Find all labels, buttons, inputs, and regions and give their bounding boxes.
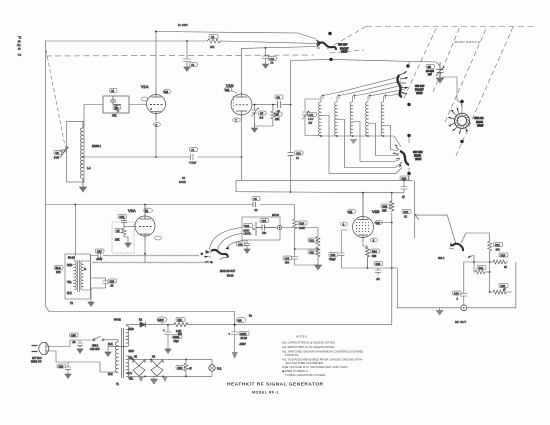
capacitor C20 xyxy=(244,240,250,249)
wire V1B plate line y=48.4 xyxy=(242,47,319,49)
transformer T2 core xyxy=(78,260,80,292)
node dot C10 tap xyxy=(265,47,267,49)
node dots grid line xyxy=(254,104,256,106)
svg-text:BLK: BLK xyxy=(108,343,113,346)
svg-text:C30: C30 xyxy=(309,114,314,117)
grid network dotted box xyxy=(112,222,134,253)
ground xyxy=(184,67,191,72)
ground C20 xyxy=(244,249,251,254)
svg-text:135: 135 xyxy=(225,89,230,92)
wire bottom bus y=268 xyxy=(342,267,398,269)
wire linkage diagonal to top dash xyxy=(327,27,366,50)
pin label bottom xyxy=(233,118,241,122)
svg-text:C28A: C28A xyxy=(173,336,180,339)
resistor R3 xyxy=(207,39,221,43)
border left edge B+ bus xyxy=(46,41,50,312)
svg-text:Page 2: Page 2 xyxy=(17,36,22,57)
switch SW A blob xyxy=(452,244,463,251)
trimmer capacitor C9 xyxy=(436,62,444,77)
wire grid to box xyxy=(124,226,137,228)
ground xyxy=(79,187,87,193)
tube V1B grid xyxy=(236,104,249,106)
svg-text:R14: R14 xyxy=(372,250,377,253)
node dot C5 tap xyxy=(186,40,188,42)
wire linkage dashed top horizontal xyxy=(366,26,534,28)
resistor R14 xyxy=(366,247,370,267)
svg-text:RF OUT: RF OUT xyxy=(455,320,466,324)
wire C9 to SW2AR xyxy=(440,77,457,100)
svg-text:C22: C22 xyxy=(285,257,290,260)
svg-text:C21: C21 xyxy=(262,220,267,223)
svg-text:C15: C15 xyxy=(120,216,125,219)
resistor R11 xyxy=(174,323,188,327)
svg-text:50/60 CY: 50/60 CY xyxy=(31,361,42,364)
svg-text:47K: 47K xyxy=(310,251,315,254)
part box 56-6 xyxy=(55,266,64,270)
svg-text:VIEW: VIEW xyxy=(341,51,348,54)
svg-text:R23: R23 xyxy=(501,254,506,257)
svg-text:B+: B+ xyxy=(249,315,253,318)
svg-text:BAND SWITCH: BAND SWITCH xyxy=(455,40,480,44)
resistor R22b xyxy=(316,247,320,265)
wire mechanical linkage dashed horizontal main xyxy=(46,55,315,56)
node dots attenuator xyxy=(489,291,491,293)
resistor R24 xyxy=(474,262,490,274)
wire B+ return bottom xyxy=(49,311,235,313)
ground RF line xyxy=(439,308,441,310)
wire V1A plate vertical xyxy=(155,31,157,88)
tube V2B grids dotted matrix xyxy=(356,222,369,232)
switch SW2BF wafer xyxy=(318,43,336,51)
capacitor C22 xyxy=(291,249,318,265)
svg-text:MOD: MOD xyxy=(272,213,280,217)
transformer T2 box xyxy=(65,254,91,299)
svg-text:SW A: SW A xyxy=(438,257,445,260)
resistor R5 xyxy=(271,105,275,126)
svg-text:R21: R21 xyxy=(310,239,315,242)
inductor L5 xyxy=(366,102,368,136)
wire lead from C20 to jack xyxy=(227,240,247,248)
switch SW-1 xyxy=(80,336,101,340)
wire SW2AF from rotor line xyxy=(408,62,410,66)
wire x=290.5 vertical xyxy=(290,61,292,193)
svg-text:C20: C20 xyxy=(238,243,243,246)
ground T1 centre tap xyxy=(108,346,127,352)
svg-text:10H: 10H xyxy=(56,271,61,274)
node dot plate xyxy=(155,31,157,33)
inductor L1 xyxy=(80,128,83,179)
ground T2 xyxy=(88,302,95,307)
wire L1 top to grid box xyxy=(84,105,103,122)
ground heater right xyxy=(162,376,168,382)
svg-text:125: 125 xyxy=(348,211,353,214)
capacitor C26 xyxy=(460,262,474,305)
node tap dot xyxy=(82,156,84,158)
capacitor C24 xyxy=(65,362,71,374)
wire tap L3 to SW2BR xyxy=(337,120,401,168)
resistor R26 xyxy=(184,359,188,376)
tube V2A plate xyxy=(140,205,151,220)
heater V2 filament xyxy=(151,359,163,376)
capacitor C28A electrolytic xyxy=(165,325,172,349)
svg-text:C26: C26 xyxy=(454,292,459,295)
svg-text:58-10: 58-10 xyxy=(227,275,234,278)
svg-text:100: 100 xyxy=(496,248,501,251)
svg-text:R24: R24 xyxy=(479,267,484,270)
svg-text:POSITION.: POSITION. xyxy=(285,353,299,357)
wire B+ rail top y=41 xyxy=(46,41,318,44)
capacitor C8 xyxy=(278,101,281,108)
connector RF OUT xyxy=(461,305,467,311)
transformer T1 HV secondary xyxy=(127,326,129,347)
shielded lead wavy top xyxy=(106,255,199,256)
svg-text:R19: R19 xyxy=(300,222,305,225)
ground C25 xyxy=(77,349,84,354)
tube V1A grid xyxy=(150,104,163,106)
svg-text:MOD IN-OUT: MOD IN-OUT xyxy=(220,270,236,273)
svg-text:140: 140 xyxy=(238,319,243,322)
svg-text:R26: R26 xyxy=(178,367,183,370)
tube V1A plate xyxy=(151,88,161,97)
svg-text:V2A: V2A xyxy=(128,208,136,213)
capacitor C15 xyxy=(121,217,127,227)
wire V1B grid network line xyxy=(252,104,291,106)
resistor R22 xyxy=(488,241,492,261)
capacitor C23 xyxy=(91,278,109,288)
wire R5 C7 join xyxy=(255,123,273,128)
wire grid left C18 xyxy=(342,230,348,252)
wire y=180.4 line xyxy=(236,179,413,181)
resistor R23 xyxy=(490,260,508,264)
svg-text:1-8: 1-8 xyxy=(260,117,264,120)
pin label cathode xyxy=(154,123,161,127)
svg-text:140V: 140V xyxy=(158,319,164,322)
node dot wavy top end xyxy=(201,253,203,255)
svg-text:SW2 AR: SW2 AR xyxy=(474,117,484,120)
svg-text:C18: C18 xyxy=(331,254,336,257)
pin label plate xyxy=(163,89,171,93)
capacitor C16 xyxy=(375,268,381,275)
resistor R21 xyxy=(316,236,320,247)
svg-text:RED: RED xyxy=(129,350,134,353)
tube V2A grid xyxy=(139,226,152,228)
svg-text:4.7μμf: 4.7μμf xyxy=(189,162,196,165)
svg-text:ALL CAPACITORS IN μf UNLESS NO: ALL CAPACITORS IN μf UNLESS NOTED. xyxy=(282,341,336,345)
wire SW A up contact xyxy=(461,233,490,243)
node dots heater xyxy=(132,359,134,361)
wire linkage dashed right diagonal xyxy=(455,27,513,158)
wire right vertical x=515.9 xyxy=(515,262,517,308)
svg-text:MODEL RF-1: MODEL RF-1 xyxy=(252,391,279,395)
wire SW2BR top xyxy=(408,136,410,144)
svg-text:R11: R11 xyxy=(178,319,183,322)
wire rotor line y=60 xyxy=(291,59,441,66)
svg-text:47μμf: 47μμf xyxy=(329,258,336,261)
svg-text:R20: R20 xyxy=(245,225,250,228)
wire mid vertical xyxy=(489,262,491,288)
svg-text:VIEW: VIEW xyxy=(415,158,422,161)
pin label top xyxy=(224,87,232,91)
svg-text:20-20: 20-20 xyxy=(241,337,248,340)
wire plate line y=193 xyxy=(362,193,364,196)
svg-text:54-R2: 54-R2 xyxy=(114,319,121,322)
svg-text:47K: 47K xyxy=(112,115,117,118)
wire RF ground line xyxy=(397,307,516,309)
connector circle grid cap xyxy=(277,225,281,229)
switch arm contact arrow xyxy=(468,256,474,258)
shielded lead wavy bottom xyxy=(92,262,209,263)
svg-text:5-30: 5-30 xyxy=(54,157,60,160)
tube V1B plate xyxy=(236,92,247,97)
svg-text:15K: 15K xyxy=(210,46,215,49)
trimmer capacitor C30 parallel box xyxy=(305,99,321,136)
transformer T1 core xyxy=(122,328,124,378)
ground xyxy=(262,64,269,69)
wire fan SW2AF to L5 xyxy=(368,89,405,96)
tube V2A cathode xyxy=(140,234,150,241)
node dots xyxy=(294,248,296,250)
capacitor C4 xyxy=(191,154,194,160)
node dot xyxy=(290,191,292,193)
node dot V1A cathode junction xyxy=(155,156,157,158)
wire fan SW2AF to L2 xyxy=(321,77,399,96)
svg-text:G: G xyxy=(84,268,86,271)
node dots coils xyxy=(320,135,322,137)
transformer T1 heater secondary xyxy=(127,356,129,377)
svg-text:R25: R25 xyxy=(501,285,506,288)
tube V2B cathode xyxy=(358,235,368,242)
potentiometer R12 xyxy=(415,180,456,244)
resistor R25 xyxy=(490,290,512,294)
svg-text:TUNING CAPACITOR CLOSED.: TUNING CAPACITOR CLOSED. xyxy=(285,373,326,377)
svg-text:LEVEL: LEVEL xyxy=(244,233,252,236)
wire heater bottom bus xyxy=(127,375,213,377)
svg-text:C29: C29 xyxy=(296,152,301,155)
wire R22 top xyxy=(489,233,491,241)
svg-text:BLK: BLK xyxy=(108,373,113,376)
tube V2B envelope xyxy=(353,217,374,238)
svg-text:.01: .01 xyxy=(270,62,274,65)
node dot cathode junction xyxy=(241,156,243,158)
node terminal dots SW2AF xyxy=(406,64,409,67)
wire fan SW2AF to L6 xyxy=(384,93,408,96)
diode D1 xyxy=(140,322,146,327)
svg-text:.04: .04 xyxy=(376,278,380,281)
ground R chain xyxy=(314,265,322,271)
ground arrow C28B xyxy=(232,352,238,359)
wire V1B cathode down xyxy=(241,119,243,157)
svg-text:HEATHKIT RF SIGNAL GENERATO: HEATHKIT RF SIGNAL GENERATOR xyxy=(227,382,324,388)
wire C28B vertical from B+ return xyxy=(234,312,236,333)
pin labels V2B xyxy=(341,222,348,226)
wire plate line y=31 xyxy=(156,32,316,40)
svg-text:.01: .01 xyxy=(110,285,114,288)
wire B+ feed to T2 xyxy=(74,205,75,261)
node terminal dots SW2AR xyxy=(460,100,463,103)
svg-text:ON-OFF: ON-OFF xyxy=(90,348,100,351)
capacitor C5 xyxy=(184,41,191,67)
inductor L3 xyxy=(335,102,337,136)
wire V2A cathode down and wavy xyxy=(144,241,146,263)
wire lead from C21 to jack xyxy=(218,234,243,251)
wire T2 top to C17 xyxy=(83,256,98,262)
svg-text:VIEW: VIEW xyxy=(477,125,484,128)
svg-text:R13: R13 xyxy=(383,205,388,208)
svg-text:R22: R22 xyxy=(495,244,500,247)
capacitor C21 xyxy=(256,225,277,231)
wire V1B plate vertical xyxy=(241,48,243,92)
wire ground vertical xyxy=(396,268,398,308)
svg-text:680: 680 xyxy=(372,255,377,258)
svg-text:PL1: PL1 xyxy=(217,368,222,371)
node dots V2B xyxy=(391,192,393,194)
capacitor C18 xyxy=(339,252,345,268)
svg-text:BAND 1: BAND 1 xyxy=(92,145,102,148)
svg-text:.01: .01 xyxy=(254,209,258,212)
svg-text:.0047: .0047 xyxy=(96,258,103,261)
node terminal dots SW2BR xyxy=(407,134,410,137)
svg-text:1K: 1K xyxy=(404,216,407,219)
svg-text:22K: 22K xyxy=(115,239,120,242)
wire tap L5 to SW2BR xyxy=(368,124,399,156)
ground grey mid coils xyxy=(350,139,358,144)
wire tap L6 to SW2BR xyxy=(384,126,399,151)
svg-text:YEL: YEL xyxy=(67,281,72,284)
svg-text:51-14: 51-14 xyxy=(68,257,75,260)
pin label xyxy=(155,236,162,240)
svg-text:22K: 22K xyxy=(275,118,280,121)
wire lamp stems xyxy=(211,359,213,376)
svg-text:500: 500 xyxy=(285,262,290,265)
svg-text:C28B: C28B xyxy=(240,333,247,336)
tube V1B envelope xyxy=(231,94,252,115)
capacitor C6 xyxy=(253,202,256,207)
transformer T2 primary xyxy=(74,261,76,290)
wire arm junction xyxy=(474,256,490,263)
wire nested corner to plate bus xyxy=(236,180,404,192)
inductor L4 xyxy=(350,102,352,136)
svg-text:C17: C17 xyxy=(97,250,102,253)
wire lead from pot to jack xyxy=(210,228,243,250)
tube V1A cathode xyxy=(151,111,161,121)
svg-text:56-6: 56-6 xyxy=(56,267,62,270)
wire R19 bottom to bus xyxy=(295,231,318,249)
svg-text:B+ 130V: B+ 130V xyxy=(178,24,188,27)
wire mid vertical lower xyxy=(489,288,491,292)
wire to T1 primary xyxy=(68,340,118,372)
wire vertical x=391.8 xyxy=(235,193,392,325)
ground in box xyxy=(125,243,132,248)
svg-text:YEL: YEL xyxy=(129,378,134,381)
switch SW2AR rear view ring xyxy=(454,113,469,128)
svg-text:BLK: BLK xyxy=(67,292,72,295)
wire SW2BR bottom xyxy=(408,168,410,181)
wire fan SW2AF to L3 xyxy=(337,81,401,96)
lamp PL1 xyxy=(209,365,215,371)
transformer T2 secondary xyxy=(81,261,83,290)
wire corner down x=294.7 xyxy=(294,205,296,220)
wire fan SW2AF to L4 xyxy=(353,85,404,96)
resistor R1 xyxy=(115,105,119,113)
inductor L6 xyxy=(381,102,383,136)
svg-text:C24: C24 xyxy=(59,365,64,368)
wire heater top bus xyxy=(131,358,212,360)
resistor R19 xyxy=(293,219,297,231)
ground heater mid xyxy=(151,376,158,384)
wire cathode to bus xyxy=(241,157,243,180)
svg-text:C23: C23 xyxy=(110,280,115,283)
node dot xyxy=(150,108,152,110)
wire grid box to V1A xyxy=(129,104,147,106)
wire screen to R13 xyxy=(375,222,392,224)
node dots B+ rail xyxy=(167,324,169,326)
svg-text:L-1: L-1 xyxy=(87,167,91,170)
svg-text:VIEW: VIEW xyxy=(416,92,423,95)
trimmer capacitor C7 xyxy=(252,105,259,126)
svg-text:RED: RED xyxy=(67,264,72,267)
capacitor C17 xyxy=(98,253,107,258)
heater V1 filament xyxy=(133,359,145,376)
resistor R13 xyxy=(390,201,394,212)
ground C28A xyxy=(165,349,172,354)
tube V2B plate xyxy=(358,193,369,220)
svg-text:6B: 6B xyxy=(145,210,148,213)
svg-text:V1A: V1A xyxy=(141,84,149,89)
ground heater left xyxy=(138,376,144,382)
svg-text:10K: 10K xyxy=(382,210,387,213)
wire linkage dashed diagonal through C9 xyxy=(433,27,460,93)
svg-text:.01: .01 xyxy=(72,341,76,344)
capacitor C14 xyxy=(401,181,408,193)
node terminal dots SW2BF xyxy=(328,32,331,35)
svg-text:20μf: 20μf xyxy=(174,340,179,343)
svg-text:-150V: -150V xyxy=(239,343,246,346)
jack hook contact xyxy=(220,257,227,259)
wire tap L4 to SW2BR xyxy=(353,122,401,162)
pot box R20 xyxy=(242,217,280,240)
grid network box C1 R1 xyxy=(103,96,129,113)
svg-text:BAND: BAND xyxy=(179,181,186,184)
wire linkage dash-dot diagonal to C2 trimmer xyxy=(46,50,66,151)
wire coil bottom bus xyxy=(321,136,401,147)
wire SW2AR top link xyxy=(457,100,462,107)
trimmer capacitor C2 xyxy=(60,147,69,158)
svg-text:140: 140 xyxy=(164,91,169,94)
svg-text:RED: RED xyxy=(129,328,134,331)
wire cathode network xyxy=(363,242,368,247)
node dot xyxy=(489,261,491,263)
svg-text:C16: C16 xyxy=(376,263,381,266)
capacitor C28B electrolytic xyxy=(231,332,238,352)
wire x=318 vertical xyxy=(282,228,318,237)
wire B+ line y=204 xyxy=(46,204,295,206)
svg-text:SW 2BF: SW 2BF xyxy=(338,44,348,47)
ground C9 xyxy=(436,78,444,84)
capacitor C29 xyxy=(288,152,294,155)
heater wire top xyxy=(127,356,132,359)
tube V2A envelope xyxy=(135,216,155,236)
jack MOD IN-OUT blob xyxy=(211,250,228,258)
wire linkage dash right of SW2BF xyxy=(330,50,364,53)
svg-text:μμf: μμf xyxy=(428,73,432,76)
potentiometer R20 xyxy=(252,222,256,236)
node dot cathode-wavy xyxy=(144,253,146,255)
wire linkage dashed diagonal through SW2AR xyxy=(445,27,487,123)
svg-text:μμf: μμf xyxy=(309,121,313,124)
inductor L2 xyxy=(319,102,321,136)
node dot wavy bottom end xyxy=(210,261,212,263)
wire V1A cathode down xyxy=(155,127,157,158)
